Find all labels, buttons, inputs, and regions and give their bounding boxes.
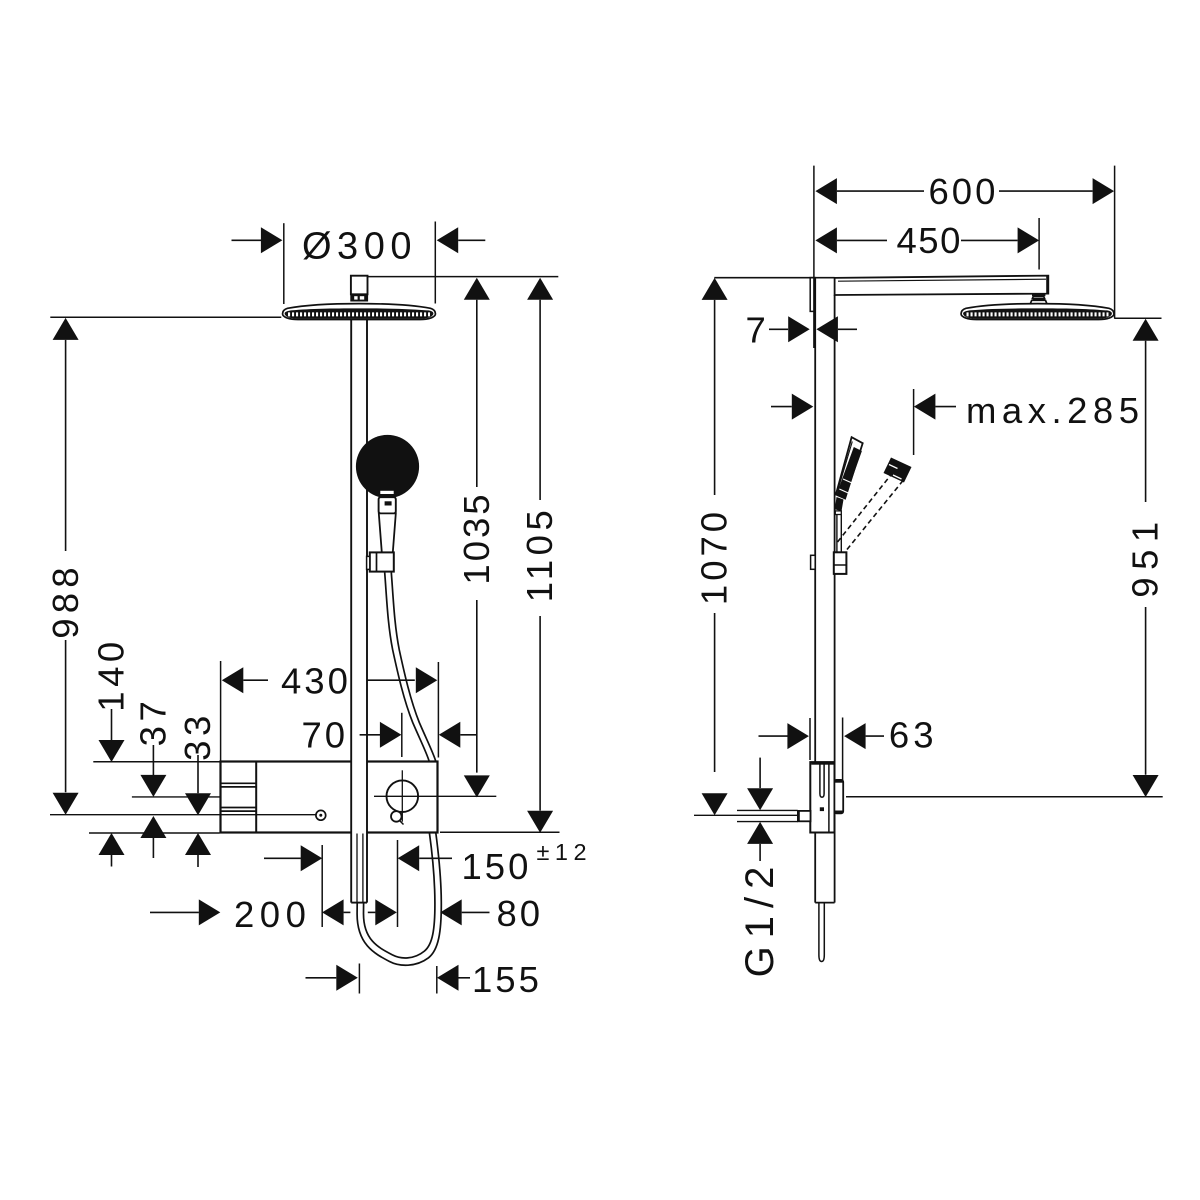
G1/2 nipple (798, 811, 811, 821)
svg-text:150: 150 (462, 846, 532, 887)
button axis extension line (132, 796, 220, 798)
dimension 430 extension lines (220, 661, 222, 761)
dimension max.285 (771, 406, 792, 408)
wall arm (side view) (835, 276, 1049, 295)
dimension 1105 (527, 278, 553, 300)
holder bracket (side view) (834, 552, 847, 574)
svg-text:±12: ±12 (537, 839, 593, 865)
dimension 1070 (702, 278, 728, 300)
select button (side view) (834, 780, 843, 813)
svg-text:430: 430 (281, 660, 351, 701)
top reference line (368, 276, 559, 278)
svg-text:450: 450 (897, 220, 962, 261)
svg-text:80: 80 (497, 893, 544, 934)
dimension 600 (815, 178, 837, 204)
dimension 200 and 80 (150, 911, 199, 913)
hose outlet small circle (391, 811, 402, 822)
hand shower side lower grip lines (836, 515, 838, 553)
valve bottom extension line right (440, 831, 560, 833)
screw dot on valve side (820, 807, 824, 811)
dimension 450 extension line (1038, 218, 1040, 270)
svg-text:1105: 1105 (519, 506, 560, 603)
dimension 1035 (464, 278, 490, 300)
ceiling connector stub (351, 276, 368, 295)
valve body (thermostat, front view) (221, 762, 438, 833)
hose lower loop (357, 833, 441, 965)
wall bar (side view) (815, 278, 834, 903)
dimension 450 (815, 227, 837, 253)
select button circle (387, 780, 419, 812)
dimension 951 (1133, 319, 1159, 341)
dimension D300 extension lines (283, 223, 285, 304)
dimension 430 (222, 667, 244, 693)
svg-text:600: 600 (929, 171, 999, 212)
dimension 600 extension line right (1114, 166, 1116, 319)
arm top line to 1070 (714, 277, 834, 279)
svg-text:Ø300: Ø300 (302, 226, 417, 268)
hand shower holder bracket (370, 552, 394, 571)
hand shower side view dashed position (838, 469, 897, 543)
valve body (side view) (810, 762, 834, 832)
dimension 155 extension lines (358, 964, 360, 994)
valve bottom extension line (89, 832, 220, 834)
hose lines inside pipe bottom (356, 834, 358, 903)
shower pipe (front view) (351, 318, 367, 903)
dimension 951 top line (1114, 317, 1161, 319)
svg-text:63: 63 (889, 715, 938, 756)
svg-text:988: 988 (45, 562, 86, 639)
svg-text:140: 140 (91, 637, 132, 711)
dimension 988 (53, 318, 79, 340)
svg-text:7: 7 (746, 310, 769, 351)
wall bracket plate (810, 278, 815, 312)
svg-text:70: 70 (302, 714, 349, 755)
svg-text:G1/2: G1/2 (738, 859, 782, 978)
svg-text:200: 200 (234, 894, 311, 935)
dimension 150 extension lines (321, 845, 323, 927)
connector black band (350, 294, 368, 301)
hand shower neck (379, 497, 396, 513)
dimension 988 reference line (50, 316, 281, 318)
thermostat handle divider (255, 762, 257, 833)
overhead shower disc (front view) (283, 304, 436, 320)
dimension 150 +-12 (264, 857, 301, 859)
G1/2 extension lines (737, 809, 798, 811)
overhead shower disc (side view) (961, 304, 1114, 320)
svg-text:max.285: max.285 (966, 390, 1145, 431)
dimension 155 (306, 977, 337, 979)
svg-text:33: 33 (177, 711, 218, 761)
valve centerline (50, 814, 316, 816)
dimension 63 extension lines (842, 718, 844, 781)
G1/2 centerline (694, 814, 798, 816)
svg-text:951: 951 (1125, 514, 1166, 597)
dimension 63 (759, 735, 788, 737)
hand shower handle (379, 513, 396, 552)
dimension 951 bottom line (846, 796, 1163, 798)
handle grip lines (222, 782, 257, 784)
button crosshair (374, 795, 496, 797)
hose hanging (side view) (819, 903, 824, 962)
G1/2 small arrows (759, 758, 761, 789)
wall extension line (813, 166, 815, 348)
svg-text:1035: 1035 (456, 491, 497, 584)
hand shower side connector (835, 497, 844, 511)
hand shower side view solid (836, 437, 863, 498)
screw detail circle (316, 810, 326, 820)
dimension D300 (232, 239, 262, 241)
ball joint connector (1032, 294, 1045, 296)
bar recess inside valve (820, 763, 824, 797)
svg-text:1070: 1070 (694, 508, 735, 605)
svg-text:155: 155 (472, 959, 542, 1000)
hand shower hose upper run (385, 573, 429, 761)
disc black rim band (285, 308, 434, 318)
valve top extension line (93, 761, 219, 763)
svg-text:37: 37 (133, 697, 174, 747)
hand shower head (black circle) (356, 435, 419, 498)
disc spray serration (288, 312, 430, 316)
dashed position head (884, 458, 912, 483)
dimension max.285 extension line (913, 389, 915, 455)
